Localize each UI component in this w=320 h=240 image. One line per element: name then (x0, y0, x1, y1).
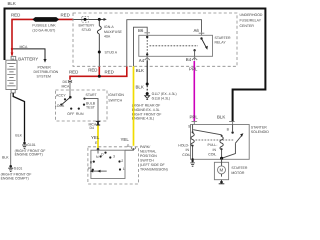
svg-text:B4: B4 (186, 57, 192, 62)
svg-text:BLK: BLK (2, 155, 9, 159)
svg-text:RED: RED (11, 13, 20, 18)
svg-text:D4: D4 (90, 126, 95, 130)
svg-text:STUD A: STUD A (105, 51, 118, 55)
svg-text:IN: IN (213, 148, 217, 152)
svg-text:CENTER: CENTER (240, 24, 255, 28)
svg-text:RUN: RUN (76, 112, 84, 116)
svg-text:2: 2 (121, 159, 123, 163)
svg-text:G101: G101 (27, 143, 36, 147)
svg-text:40A: 40A (104, 35, 111, 39)
svg-text:FUSE/RELAY: FUSE/RELAY (240, 18, 262, 22)
svg-text:(RIGHT REAR OF: (RIGHT REAR OF (132, 104, 161, 108)
svg-text:3: 3 (113, 154, 115, 158)
svg-text:ENGINE:EX. 4.3L: ENGINE:EX. 4.3L (132, 108, 160, 112)
svg-text:RELAY: RELAY (215, 41, 227, 45)
svg-text:M: M (220, 168, 224, 173)
svg-text:B6: B6 (138, 28, 144, 33)
svg-text:BLK: BLK (136, 85, 144, 90)
svg-text:ACCY: ACCY (56, 94, 66, 98)
svg-text:PARK/: PARK/ (140, 145, 150, 149)
svg-text:MCA: MCA (20, 45, 28, 49)
svg-text:RED: RED (105, 69, 114, 74)
svg-text:PPL: PPL (190, 114, 199, 119)
svg-text:SYSTEM: SYSTEM (37, 75, 51, 79)
svg-text:RED: RED (69, 69, 78, 74)
svg-text:(10 GA-RUST): (10 GA-RUST) (32, 28, 55, 32)
svg-text:IGNITION: IGNITION (108, 93, 124, 97)
svg-text:BATTERY: BATTERY (79, 24, 95, 28)
svg-text:STARTER: STARTER (231, 166, 247, 170)
svg-text:STARTER: STARTER (251, 126, 267, 130)
svg-text:POSITION: POSITION (140, 154, 157, 158)
svg-text:SOLENOID: SOLENOID (251, 130, 270, 134)
svg-text:PULL-: PULL- (208, 143, 219, 147)
svg-text:SWITCH: SWITCH (108, 98, 122, 102)
svg-text:RIGHT FRONT OF: RIGHT FRONT OF (132, 112, 162, 116)
svg-text:YEL: YEL (91, 135, 100, 140)
svg-text:TEST: TEST (86, 106, 96, 110)
svg-text:ENGINE COMPT): ENGINE COMPT) (15, 153, 43, 157)
svg-text:A4: A4 (139, 58, 145, 63)
svg-text:1: 1 (123, 167, 125, 171)
svg-text:BATTERY: BATTERY (18, 56, 38, 61)
svg-text:(LEFT SIDE OF: (LEFT SIDE OF (140, 163, 165, 167)
svg-text:MCA: MCA (62, 84, 70, 88)
svg-text:G117 (EX. 4.3L): G117 (EX. 4.3L) (152, 92, 177, 96)
svg-text:SWITCH: SWITCH (140, 159, 154, 163)
svg-text:MOTOR: MOTOR (231, 171, 244, 175)
svg-text:PPL: PPL (189, 66, 198, 71)
svg-text:COIL: COIL (182, 153, 190, 157)
svg-text:DISTRIBUTION: DISTRIBUTION (34, 70, 59, 74)
svg-text:STARTER: STARTER (215, 36, 231, 40)
svg-text:BLK: BLK (15, 134, 22, 138)
svg-text:START: START (86, 93, 98, 97)
svg-text:STUD: STUD (82, 28, 92, 32)
svg-text:A6: A6 (194, 28, 200, 33)
svg-text:G118 (4.3L): G118 (4.3L) (152, 97, 170, 101)
svg-text:IGN-A: IGN-A (104, 25, 114, 29)
svg-text:G101: G101 (14, 167, 23, 171)
svg-text:ENGINE:4.3L): ENGINE:4.3L) (132, 117, 154, 121)
svg-text:LOCK: LOCK (55, 104, 65, 108)
svg-text:TRANSMISSION): TRANSMISSION) (140, 168, 168, 172)
svg-text:4: 4 (12, 57, 14, 61)
svg-text:NEUTRAL: NEUTRAL (140, 150, 156, 154)
svg-text:MAXIFUSE: MAXIFUSE (104, 30, 123, 34)
svg-text:BLK: BLK (217, 114, 225, 119)
svg-text:COIL: COIL (208, 152, 216, 156)
svg-text:FUSIBLE LINK: FUSIBLE LINK (32, 24, 56, 28)
svg-text:BLK: BLK (136, 68, 144, 73)
svg-text:RED: RED (61, 13, 70, 18)
svg-text:YEL: YEL (121, 137, 130, 142)
svg-text:UNDERHOOD: UNDERHOOD (240, 13, 263, 17)
svg-text:HOLD-: HOLD- (178, 144, 190, 148)
svg-text:ENGINE COMPT): ENGINE COMPT) (1, 176, 29, 180)
svg-text:BLK: BLK (8, 1, 16, 6)
svg-text:IN: IN (186, 148, 190, 152)
svg-text:OFF: OFF (67, 112, 74, 116)
svg-text:RED: RED (88, 68, 97, 73)
svg-text:POWER: POWER (38, 65, 52, 69)
